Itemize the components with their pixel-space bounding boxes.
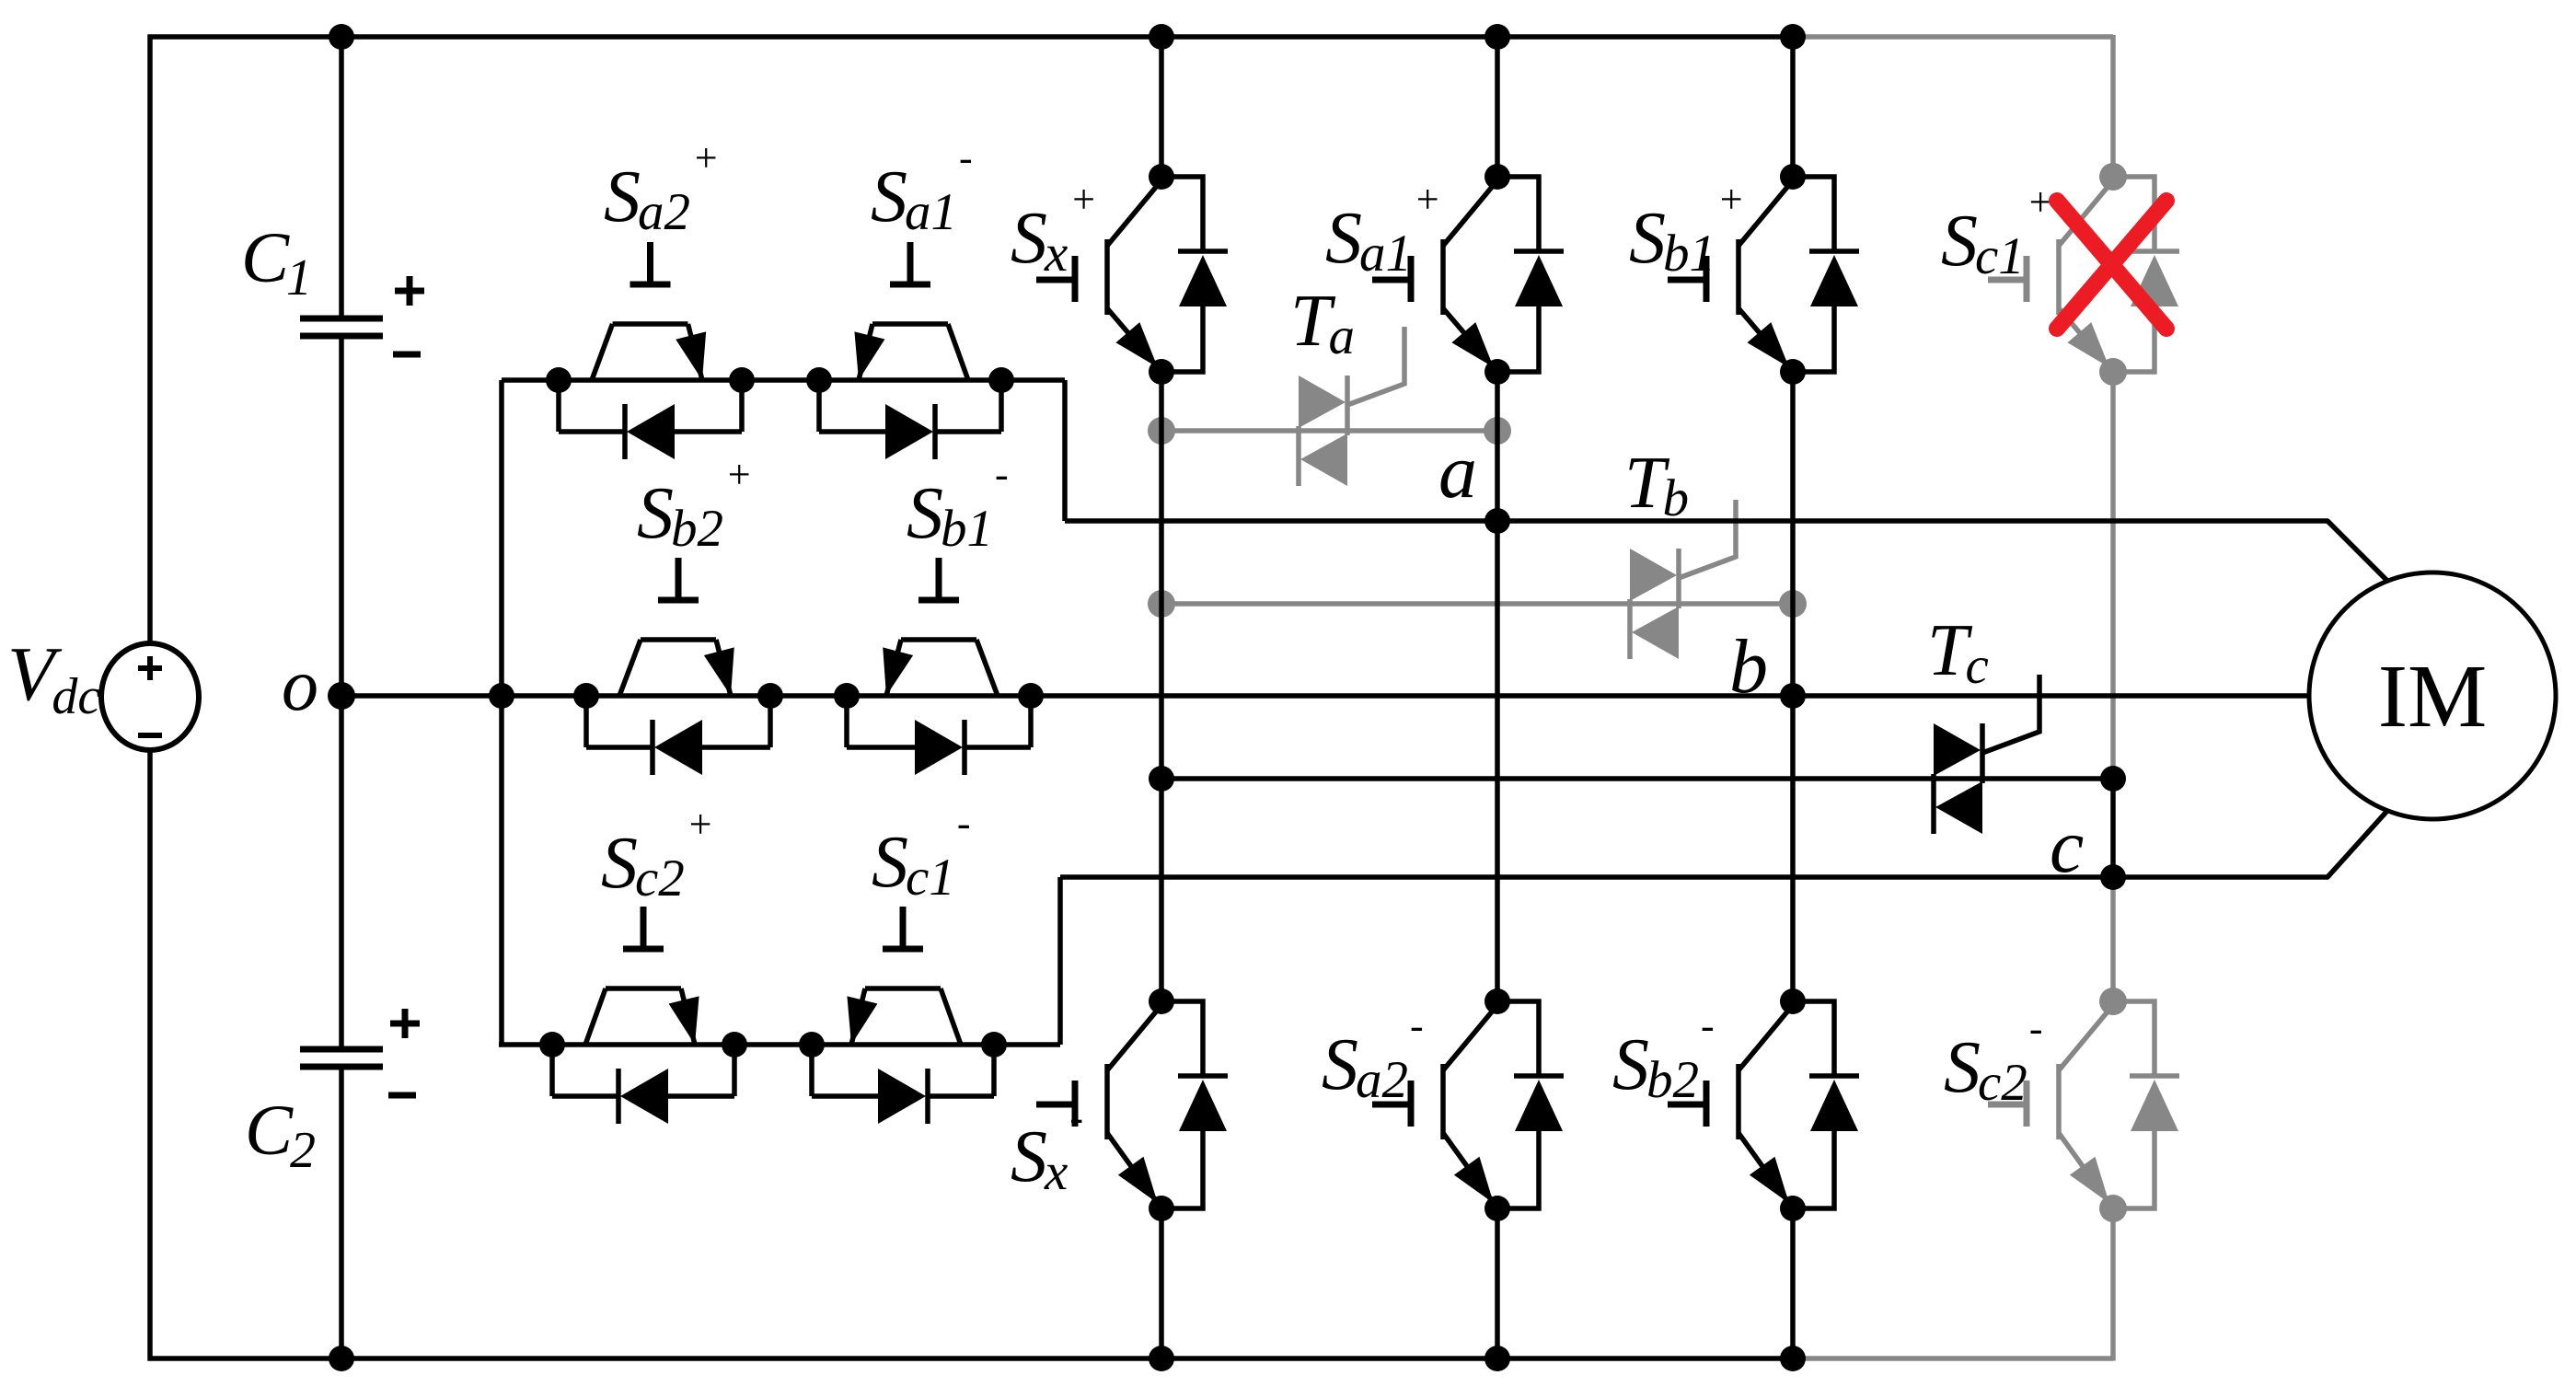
transistor Sc1-	[847, 907, 961, 1045]
wire phase-c diagonal to IM	[2328, 812, 2386, 877]
svg-text:IM: IM	[2378, 647, 2488, 746]
junction bottom rail / Sx bus	[1149, 1346, 1174, 1371]
junction top rail / Sx bus	[1149, 24, 1174, 50]
node Sc pair mid-right	[799, 1032, 825, 1058]
diode D Sa1+	[1497, 177, 1564, 372]
label C2 polarity -	[388, 1092, 416, 1099]
wire neutral feed vertical (pairs left side)	[499, 380, 504, 1045]
junction gray Sc1+ collector	[2099, 163, 2127, 191]
svg-text:b: b	[1729, 624, 1768, 710]
wire top rail gray segment to faulted leg Sc	[1793, 34, 2113, 40]
diode D Sb2-	[1793, 1001, 1859, 1208]
wire Sx bus: Sx- emitter to bottom rail	[1159, 1208, 1164, 1358]
label C2 polarity +	[390, 1009, 420, 1038]
svg-text:a: a	[1438, 429, 1477, 514]
node a	[1484, 508, 1510, 534]
junction Sb1+ emitter	[1780, 359, 1806, 385]
wire Sb bus: Sb2- emitter to bottom rail	[1790, 1208, 1796, 1358]
wire black segment on Sc bus (Tc tap to c node)	[2110, 779, 2116, 877]
diode D Sa2-	[1497, 1001, 1564, 1208]
wire gray Ta line	[1161, 428, 1497, 433]
junction gray Tb line at Sb bus	[1779, 590, 1807, 618]
transistor Sb1+	[1668, 180, 1793, 372]
junction top rail / Sb bus	[1780, 24, 1806, 50]
induction motor IM	[2309, 572, 2556, 819]
diode D Sx-	[1161, 1001, 1228, 1208]
wire phase-a diagonal to IM	[2328, 521, 2386, 580]
wire Sx bus: top rail to Sx+ collector	[1159, 37, 1164, 177]
node c	[2100, 864, 2126, 890]
wire o row / phase-b line	[341, 693, 2310, 699]
node Sa pair mid-left	[729, 367, 755, 393]
wire gray Tb line	[1161, 601, 1793, 607]
wire Sa bus: top rail to Sa1+ collector	[1495, 37, 1500, 177]
junction Sx- collector	[1149, 988, 1174, 1014]
wire gray bottom rail segment	[1793, 1356, 2113, 1361]
diode D Sa1-	[819, 380, 1001, 459]
wire Sb bus: Sb1+ emitter to Sb2- collector	[1790, 372, 1796, 1001]
node Sb pair right	[1018, 683, 1044, 709]
wire Sc-pair output up to phase-c line	[1057, 877, 1063, 1045]
node b	[1780, 683, 1806, 709]
wire Sa-pair node line	[502, 377, 1065, 383]
wire node o to C2	[339, 696, 344, 1049]
node Sa pair right	[988, 367, 1014, 393]
transistor Sa2-	[1372, 1005, 1497, 1208]
wire phase-a line	[1065, 518, 2328, 524]
transistor Sc2-	[1988, 1005, 2113, 1208]
node Sa pair mid-right	[806, 367, 832, 393]
wire left rail lower (Vdc- to bottom rail)	[147, 747, 153, 1361]
junction Sa1+ collector	[1484, 164, 1510, 190]
node Sc pair right	[981, 1032, 1007, 1058]
diode D Sx+	[1161, 177, 1228, 372]
wire DC midpoint bus: top rail to C1	[339, 37, 344, 318]
junction Sb1+ collector	[1780, 164, 1806, 190]
wire Sa bus: Sa2- emitter to bottom rail	[1495, 1208, 1500, 1358]
diode D Sc2+	[552, 1045, 734, 1124]
wire Sc-pair node line	[499, 1042, 1060, 1047]
wire gray Sc bus mid (emitter Sc1+ to Tc tap)	[2110, 377, 2116, 779]
junction Sb2- emitter	[1780, 1196, 1806, 1221]
label C1 polarity -	[393, 352, 421, 358]
node Sb pair left	[573, 683, 599, 709]
wire gray Sc bus (c node to Sc2- collector)	[2110, 877, 2116, 1001]
diode D Sb1+	[1793, 177, 1859, 372]
diode D Sb2+	[586, 696, 770, 775]
junction bottom rail / Sa bus	[1484, 1346, 1510, 1371]
diode D Sa2+	[559, 380, 742, 459]
transistor Sc1+ (faulted)	[1988, 180, 2113, 372]
wire Tc line (Sx bus to faulted leg)	[1161, 776, 2113, 781]
junction gray Ta line at Sa bus	[1484, 417, 1511, 445]
triac Tc	[1934, 675, 2039, 834]
junction bottom rail / Sb bus	[1780, 1346, 1806, 1371]
transistor Sx-	[1036, 1005, 1161, 1208]
junction Sa1+ emitter	[1484, 359, 1510, 385]
capacitor C1	[300, 318, 383, 336]
junction gray Sc2- emitter	[2099, 1195, 2127, 1222]
wire C1 to node o	[339, 336, 344, 696]
junction Tc line at Sc bus	[2100, 766, 2126, 792]
transistor Sa1+	[1372, 180, 1497, 372]
wire Sa-pair output down to phase-a line	[1062, 380, 1068, 521]
red X fault mark over Sc1+	[2057, 201, 2166, 329]
wire Sa bus: Sa1+ emitter to Sa2- collector	[1495, 372, 1500, 1001]
junction top rail / Sa bus	[1484, 24, 1510, 50]
svg-text:o: o	[282, 645, 318, 726]
wire phase-c line	[1060, 874, 2328, 880]
node Sa pair left	[546, 367, 572, 393]
wire top DC+ rail	[148, 34, 1794, 40]
node Sc pair left	[539, 1032, 565, 1058]
wire Sx bus: Sx+ emitter to Sx- collector	[1159, 372, 1164, 1001]
junction gray Tb tap on Sx bus	[1148, 590, 1175, 618]
node Sc pair mid-left	[722, 1032, 747, 1058]
junction gray Ta tap on Sx bus	[1148, 417, 1175, 445]
junction Sx+ emitter	[1149, 359, 1174, 385]
wire left rail upper (Vdc+ to top rail)	[147, 35, 153, 646]
junction Sa2- collector	[1484, 988, 1510, 1014]
junction Sb2- collector	[1780, 988, 1806, 1014]
diode D Sc1-	[812, 1045, 994, 1124]
junction top rail / C bus	[329, 24, 354, 50]
transistor Sb1-	[883, 558, 998, 696]
triac Ta	[1299, 327, 1404, 486]
transistor Sa2+	[592, 242, 706, 380]
diode D Sc2-	[2113, 1001, 2179, 1208]
node Sb pair mid-right	[834, 683, 860, 709]
transistor Sb2+	[619, 558, 734, 696]
svg-text:c: c	[2050, 803, 2084, 889]
wire gray Sc bus top	[2110, 35, 2116, 177]
junction bottom rail / C bus	[329, 1346, 354, 1371]
wire bottom DC- rail	[148, 1356, 1794, 1361]
label C1 polarity +	[395, 276, 424, 306]
node o	[328, 682, 355, 710]
voltage source Vdc	[101, 643, 199, 750]
capacitor C2	[300, 1049, 383, 1067]
triac Tb	[1630, 500, 1736, 659]
transistor Sb2-	[1668, 1005, 1793, 1208]
junction gray Sc1+ emitter	[2099, 358, 2127, 386]
node Sb pair mid-left	[757, 683, 783, 709]
junction Sx+ collector	[1149, 164, 1174, 190]
junction Sx- emitter	[1149, 1196, 1174, 1221]
junction Tc tap on Sx bus	[1149, 766, 1174, 792]
transistor Sx+	[1036, 180, 1161, 372]
diode D Sb1-	[847, 696, 1031, 775]
wire gray Sc bus bottom	[2110, 1208, 2116, 1361]
diode D Sc1+ (faulted)	[2113, 177, 2179, 372]
transistor Sa1-	[854, 242, 968, 380]
junction neutral feed on o row	[489, 683, 514, 709]
junction Sa2- emitter	[1484, 1196, 1510, 1221]
transistor Sc2+	[585, 907, 699, 1045]
wire C2 to bottom rail	[339, 1067, 344, 1358]
junction gray Sc2- collector	[2099, 988, 2127, 1015]
wire Sb bus: top rail to Sb1+ collector	[1790, 37, 1796, 177]
